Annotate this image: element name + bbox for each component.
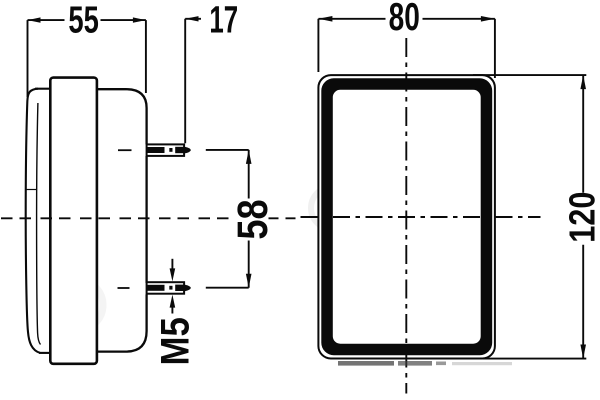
- watermark gear circle left: [53, 280, 103, 330]
- dimension 55: right arrow: [133, 17, 146, 22]
- watermark text row under front view: [338, 361, 394, 366]
- front view: thick rubber ring: [321, 78, 492, 355]
- dimension 17: leader line: [185, 18, 201, 20]
- dimension 80: right arrow: [481, 16, 495, 22]
- upper stud thread dot: [169, 148, 172, 152]
- dimension 120: top arrow: [580, 75, 586, 89]
- dimension 58: top jog line: [206, 149, 249, 151]
- lower mounting stud M5 outline: [147, 282, 185, 294]
- upper stud thread end block: [175, 147, 183, 153]
- dimension 55: left arrow: [28, 17, 41, 22]
- dimension 120: bottom extension line: [483, 358, 586, 360]
- dimension 58: top arrow: [246, 150, 252, 164]
- dimension 55: line segments: [28, 19, 146, 21]
- dimension 120: vertical line: [582, 75, 584, 358]
- left view: lens inner contour line: [37, 103, 41, 345]
- dimension 17: arrow: [185, 16, 198, 21]
- left view horizontal centerline: [1, 217, 232, 219]
- lower stud dome tip: [185, 285, 191, 292]
- dimension 80: left extension line: [317, 19, 319, 72]
- upper stud centerline dash: [118, 149, 132, 151]
- lower stud centerline dash: [118, 287, 130, 289]
- dimension 55: right extension line: [145, 20, 147, 93]
- dimension 58: bottom arrow: [246, 274, 252, 288]
- svg-text:55: 55: [68, 0, 98, 41]
- dimension M5: lower leader with arrow: [171, 305, 173, 314]
- dimension 120: bottom arrow: [580, 345, 586, 359]
- upper mounting stud M5 outline: [147, 144, 185, 156]
- svg-text:120: 120: [562, 192, 600, 243]
- svg-text:17: 17: [209, 0, 238, 41]
- lower stud thread dot: [169, 286, 172, 290]
- front view vertical centerline: [405, 38, 407, 394]
- left view: lens parting tick: [26, 189, 37, 191]
- front view horizontal centerline: [301, 216, 541, 218]
- left view: housing body outline: [97, 89, 147, 351]
- watermark gear circle center: [311, 187, 353, 229]
- upper stud thread black bar: [147, 147, 164, 153]
- svg-text:58: 58: [229, 199, 277, 239]
- dimension 80: right extension line: [494, 19, 496, 78]
- lower stud thread black bar: [147, 285, 164, 291]
- dimension 80: line segments: [318, 18, 495, 20]
- svg-text:d Toli: d Toli: [444, 343, 476, 357]
- watermark gear circle right: [367, 277, 417, 327]
- dimension 55: left extension line: [27, 20, 29, 97]
- dimension 17: extension line: [184, 19, 186, 143]
- svg-text:M5: M5: [152, 317, 197, 365]
- dimension 80: left arrow: [318, 16, 332, 22]
- left view: lens top edge: [35, 88, 51, 90]
- front view: outer contour rounded rect: [318, 75, 495, 358]
- dimension M5: upper leader with arrow: [171, 259, 173, 270]
- svg-text:80: 80: [389, 0, 420, 39]
- upper stud dome tip: [185, 147, 191, 154]
- dimension 58: bottom jog line: [206, 287, 249, 289]
- left view: lens bottom edge: [39, 352, 51, 354]
- left view: lens outer profile: [26, 89, 40, 353]
- dimension 120: top extension line: [473, 74, 586, 76]
- lower stud thread end block: [175, 285, 183, 291]
- left view: lens rim band: [50, 78, 97, 364]
- dimension 58: vertical line: [248, 150, 250, 288]
